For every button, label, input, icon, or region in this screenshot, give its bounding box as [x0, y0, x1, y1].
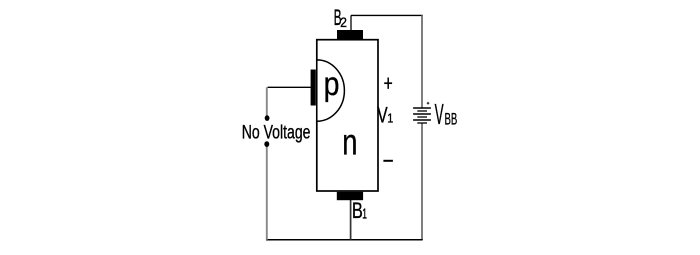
svg-text:BB: BB: [445, 111, 458, 129]
svg-text:1: 1: [387, 110, 393, 125]
svg-text:1: 1: [362, 205, 367, 222]
svg-text:V: V: [435, 99, 444, 131]
svg-text:V: V: [377, 102, 388, 127]
svg-text:p: p: [324, 66, 340, 103]
svg-text:n: n: [342, 121, 357, 162]
svg-text:No Voltage: No Voltage: [242, 122, 311, 143]
svg-text:2: 2: [340, 15, 347, 31]
